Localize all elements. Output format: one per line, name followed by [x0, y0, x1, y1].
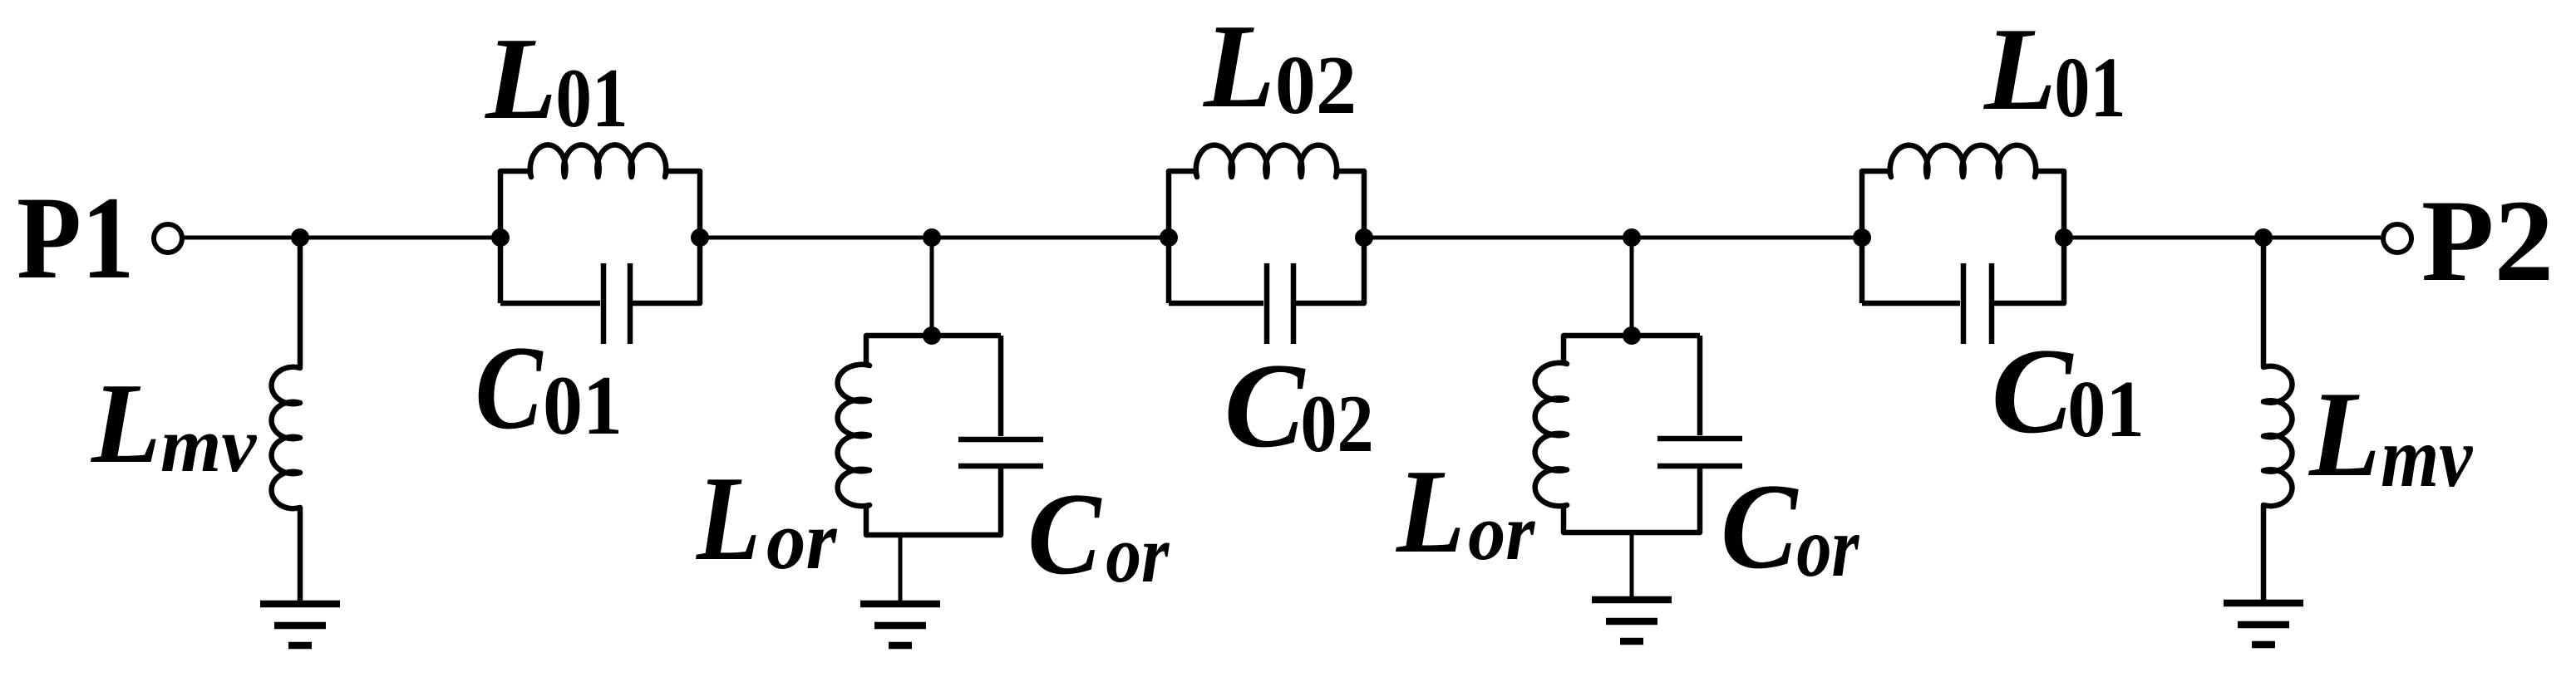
wire stem from bus to LorACorA tank	[930, 238, 934, 336]
wire LorACorA ground stem	[899, 535, 903, 604]
node LorACorA tank top	[923, 326, 941, 345]
node LorBCorB tank top	[1623, 326, 1641, 345]
svg-text:mv: mv	[160, 402, 257, 488]
wire bus segment 6	[1632, 236, 1862, 240]
wire bus segment 5	[1364, 236, 1632, 240]
svg-text:C: C	[1027, 469, 1102, 599]
node tank1 right	[691, 228, 709, 247]
capacitor C02	[1169, 263, 1364, 344]
label Lmv right	[2308, 367, 2474, 506]
svg-text:01: 01	[555, 51, 628, 145]
label C02	[1224, 339, 1374, 473]
label L01b	[1982, 3, 2125, 135]
svg-text:01: 01	[2067, 364, 2145, 454]
node tank3 left	[1853, 228, 1871, 247]
svg-text:mv: mv	[2381, 410, 2474, 506]
label LorA	[696, 451, 837, 587]
wire LorBCorB tank bottom edge	[1564, 530, 1700, 536]
svg-text:L: L	[696, 451, 761, 586]
wire LorACorA tank bottom edge	[866, 532, 1001, 538]
wire L01aC01a tank left edge	[498, 171, 504, 303]
wire stem from bus to LorBCorB tank	[1630, 238, 1634, 336]
node right Lmv	[2254, 228, 2273, 247]
svg-text:or: or	[766, 495, 837, 587]
port P1	[154, 224, 182, 253]
wire LorACorA tank top edge	[866, 333, 1001, 339]
svg-text:C: C	[1992, 323, 2075, 459]
wire L01bC01b tank left edge	[1859, 171, 1865, 303]
svg-text:L: L	[1982, 3, 2056, 135]
wire bus segment 8	[2263, 236, 2381, 240]
wire L01aC01a tank right edge	[697, 171, 703, 303]
inductor L02	[1169, 145, 1364, 177]
ground under right Lmv	[2224, 603, 2303, 645]
capacitor C01b	[1862, 263, 2064, 344]
node tank3 right	[2055, 228, 2073, 247]
svg-text:or: or	[1106, 509, 1170, 600]
svg-text:P1: P1	[17, 173, 134, 303]
svg-text:L: L	[2308, 367, 2381, 503]
svg-text:02: 02	[1275, 39, 1357, 131]
svg-text:L: L	[90, 359, 161, 487]
node tank2 left	[1160, 228, 1178, 247]
svg-text:P2: P2	[2421, 175, 2554, 306]
inductor Lmv right	[2263, 238, 2292, 603]
node tank2 right	[1355, 228, 1373, 247]
wire bus segment 7	[2064, 236, 2263, 240]
ground under left Lmv	[260, 604, 340, 645]
wire LorBCorB ground stem	[1630, 532, 1634, 600]
svg-text:L: L	[1202, 0, 1275, 132]
ground under LorACorA	[860, 604, 940, 645]
label CorB	[1721, 459, 1859, 595]
label L02	[1202, 0, 1357, 132]
svg-text:or: or	[1468, 489, 1535, 577]
ground under LorBCorB	[1592, 600, 1672, 641]
svg-text:C: C	[1224, 339, 1307, 473]
capacitor CorB	[1657, 336, 1742, 532]
label LorB	[1395, 445, 1535, 578]
capacitor C01a	[500, 263, 700, 344]
label P2	[2421, 175, 2554, 306]
capacitor CorA	[958, 336, 1043, 535]
port P2	[2383, 224, 2411, 253]
label L01a	[484, 13, 628, 145]
wire L02C02 tank left edge	[1166, 171, 1172, 303]
svg-text:L: L	[484, 13, 557, 145]
svg-text:01: 01	[2054, 39, 2125, 135]
wire bus segment 4	[932, 236, 1169, 240]
wire bus segment 2	[300, 236, 500, 240]
svg-text:01: 01	[543, 359, 623, 452]
label CorA	[1027, 469, 1170, 599]
inductor Lmv left	[272, 238, 300, 604]
wire L02C02 tank right edge	[1362, 171, 1367, 303]
node shunt2	[1623, 228, 1641, 247]
node shunt1	[923, 228, 941, 247]
wire bus segment 1	[184, 236, 300, 240]
wire LorBCorB tank top edge	[1564, 333, 1700, 339]
svg-text:C: C	[1721, 459, 1799, 594]
inductor L01a	[500, 145, 700, 177]
label C01a	[475, 321, 623, 454]
inductor LorB	[1535, 336, 1567, 532]
label Lmv left	[90, 359, 257, 488]
svg-text:L: L	[1395, 445, 1465, 578]
svg-text:02: 02	[1300, 378, 1373, 469]
node left Lmv	[291, 228, 309, 247]
node tank1 left	[491, 228, 510, 247]
inductor L01b	[1862, 145, 2064, 177]
svg-text:C: C	[475, 321, 544, 454]
wire L01bC01b tank right edge	[2061, 171, 2067, 303]
svg-text:or: or	[1796, 498, 1859, 595]
label P1	[17, 173, 134, 303]
wire bus segment 3	[700, 236, 932, 240]
label C01b	[1992, 323, 2145, 459]
inductor LorA	[838, 336, 869, 535]
